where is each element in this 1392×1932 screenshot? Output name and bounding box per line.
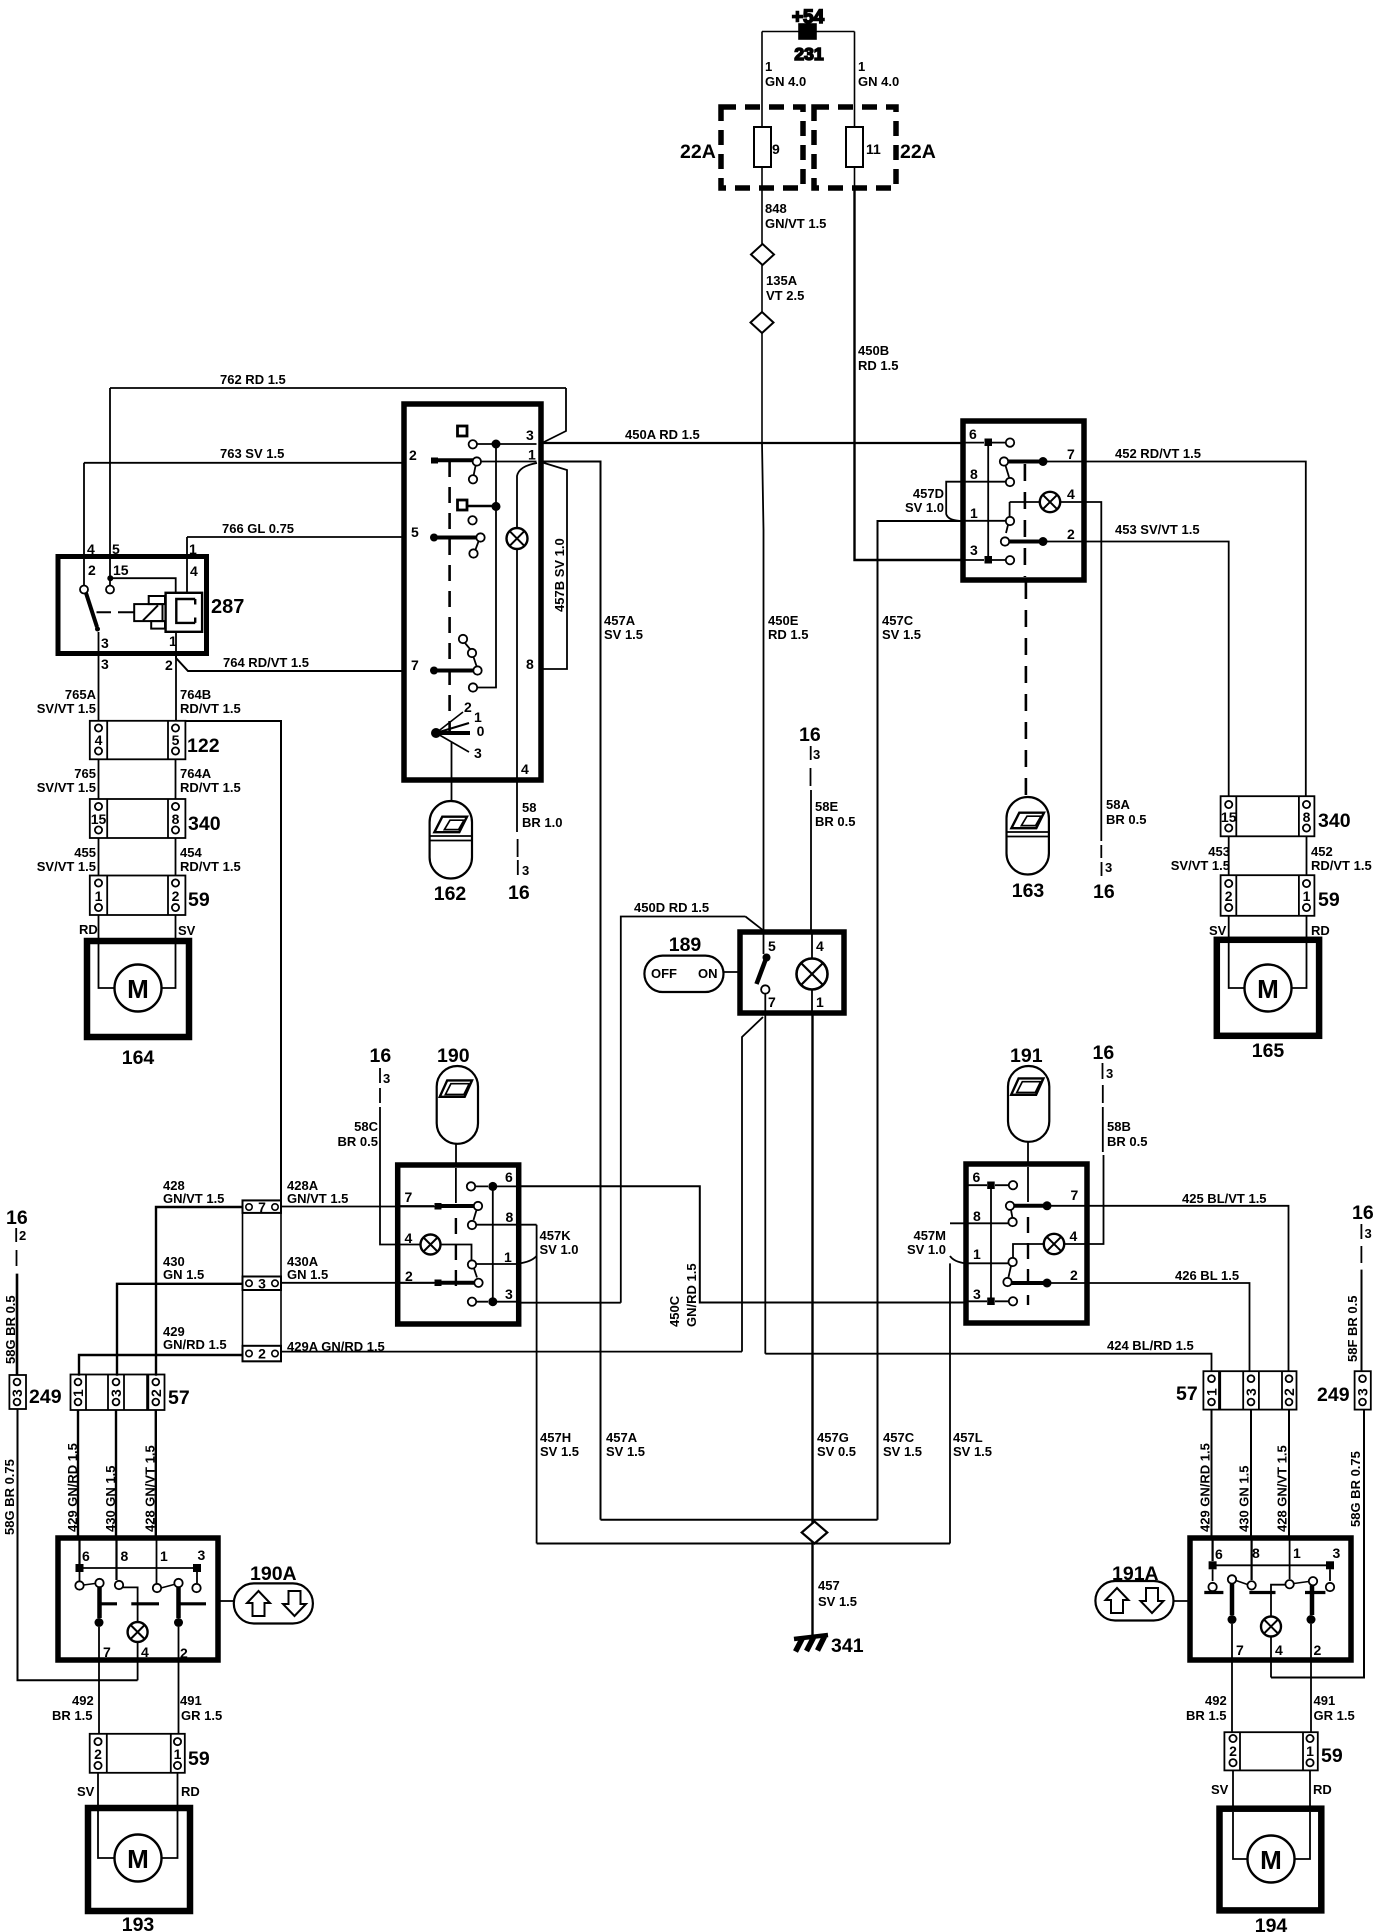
svg-text:424 BL/RD 1.5: 424 BL/RD 1.5 — [1107, 1338, 1194, 1353]
svg-text:3: 3 — [258, 1276, 266, 1292]
svg-text:426 BL 1.5: 426 BL 1.5 — [1175, 1268, 1239, 1283]
pin6 contact — [987, 1182, 995, 1190]
svg-text:430 GN 1.5: 430 GN 1.5 — [103, 1466, 118, 1533]
pin7 wire down — [98, 1627, 100, 1734]
svg-text:7: 7 — [405, 1189, 413, 1205]
arm — [1011, 1210, 1013, 1218]
svg-text:2: 2 — [409, 447, 417, 463]
wire 457 SV 1.5 — [818, 1578, 857, 1609]
pin 8 contact — [1250, 1538, 1252, 1580]
pin2 bar — [434, 458, 473, 462]
svg-text:193: 193 — [122, 1914, 155, 1932]
svg-text:3: 3 — [198, 1547, 206, 1563]
wire 764 RD/VT 1.5 — [176, 653, 406, 671]
svg-text:453 SV/VT 1.5: 453 SV/VT 1.5 — [1115, 522, 1200, 537]
pin 1 contact — [1289, 1538, 1291, 1579]
svg-text:341: 341 — [831, 1635, 864, 1657]
relay dashed link — [97, 611, 134, 613]
svg-text:4: 4 — [1275, 1642, 1283, 1658]
457B SV 1.0 bracket (pins 1-8 common) — [541, 462, 567, 669]
svg-text:BR 1.5: BR 1.5 — [52, 1708, 92, 1723]
svg-text:2: 2 — [180, 1645, 188, 1661]
svg-text:6: 6 — [1215, 1546, 1223, 1562]
connector 340 — [90, 799, 221, 838]
pin2 wire down — [178, 1627, 180, 1734]
wire 491 GR 1.5 (right) — [1314, 1693, 1355, 1723]
contact stop bars — [1204, 1591, 1325, 1594]
svg-text:3: 3 — [1106, 1066, 1113, 1081]
dashed drive link to 163 — [1025, 582, 1028, 797]
svg-text:491: 491 — [1314, 1693, 1336, 1708]
svg-text:165: 165 — [1252, 1040, 1285, 1062]
457K SV 1.0 bracket (pins 8-1) — [519, 1225, 537, 1264]
window drive link dashed — [455, 1168, 457, 1203]
connector 249 (right) — [1317, 1371, 1371, 1409]
svg-text:162: 162 — [434, 883, 467, 905]
svg-text:450C: 450C — [667, 1295, 682, 1327]
svg-text:1: 1 — [970, 505, 978, 521]
svg-text:4: 4 — [816, 938, 824, 954]
wire 58G BR 0.75 (right) — [1271, 1410, 1364, 1678]
svg-text:3: 3 — [101, 635, 109, 651]
right switch arm — [1294, 1582, 1309, 1584]
passenger front window switch (457D box) — [963, 421, 1084, 580]
svg-text:3: 3 — [108, 1389, 124, 1397]
wire 457L SV 1.5 — [949, 1263, 951, 1543]
svg-text:1: 1 — [189, 541, 197, 557]
left switch arm — [84, 1584, 96, 1586]
svg-text:7: 7 — [411, 657, 419, 673]
wire 450A RD 1.5 — [541, 442, 963, 444]
actuator dashed line — [448, 461, 451, 731]
svg-text:6: 6 — [82, 1548, 90, 1564]
connector 249 (left) — [9, 1375, 62, 1409]
svg-text:58E: 58E — [815, 799, 838, 814]
top bus bar pin6-pin3 — [1213, 1564, 1330, 1566]
svg-text:457M: 457M — [913, 1228, 946, 1243]
wire 457G SV 0.5 — [811, 1013, 813, 1635]
svg-text:SV/VT 1.5: SV/VT 1.5 — [37, 780, 96, 795]
svg-text:1: 1 — [858, 59, 865, 74]
relay pin15 to coil wire — [107, 575, 113, 581]
pin1 contact — [1008, 1258, 1016, 1266]
svg-text:8: 8 — [970, 466, 978, 482]
svg-text:762 RD 1.5: 762 RD 1.5 — [220, 372, 286, 387]
wire 428 GN/VT 1.5 — [156, 1207, 243, 1376]
svg-text:450B: 450B — [858, 343, 889, 358]
wire SV — [175, 915, 177, 941]
svg-text:GR 1.5: GR 1.5 — [181, 1708, 222, 1723]
svg-text:GN/RD 1.5: GN/RD 1.5 — [163, 1337, 227, 1352]
svg-text:457D: 457D — [913, 486, 944, 501]
svg-text:RD/VT 1.5: RD/VT 1.5 — [180, 780, 241, 795]
connector 57 (right) — [1176, 1371, 1297, 1409]
pin7 wire down — [1231, 1624, 1233, 1732]
svg-text:2: 2 — [1070, 1267, 1078, 1283]
svg-text:7: 7 — [258, 1199, 266, 1215]
svg-text:194: 194 — [1255, 1915, 1288, 1932]
wire 453 SV/VT 1.5 (lower) — [1228, 836, 1230, 875]
wire 454 RD/VT 1.5 — [175, 838, 177, 876]
svg-text:2: 2 — [1281, 1388, 1297, 1396]
svg-text:1: 1 — [174, 1746, 182, 1762]
svg-text:SV: SV — [77, 1784, 95, 1799]
pin6 contact — [985, 439, 993, 447]
svg-text:SV 1.5: SV 1.5 — [540, 1444, 579, 1459]
connector 59 (left rear door) — [90, 1734, 210, 1773]
wire 430 GN 1.5 — [117, 1284, 243, 1376]
svg-text:3: 3 — [526, 427, 534, 443]
svg-text:765A: 765A — [65, 687, 97, 702]
457M SV 1.0 bracket (pins 8-1) — [950, 1223, 966, 1263]
svg-text:2: 2 — [94, 1746, 102, 1762]
svg-text:763 SV 1.5: 763 SV 1.5 — [220, 446, 284, 461]
switch knob symbol 190A — [218, 1563, 313, 1624]
svg-text:7: 7 — [1071, 1187, 1079, 1203]
wire 428A GN/VT 1.5 — [281, 1206, 435, 1208]
svg-text:RD 1.5: RD 1.5 — [768, 627, 808, 642]
fuse 9 box — [680, 107, 803, 188]
wire 457C SV 1.5 (from pins 8/1) — [878, 521, 964, 1520]
svg-text:249: 249 — [29, 1386, 62, 1408]
svg-text:16: 16 — [1093, 1042, 1115, 1064]
pin3 contact — [468, 1298, 476, 1306]
svg-text:1: 1 — [1293, 1545, 1301, 1561]
wire 426 BL 1.5 — [1087, 1283, 1250, 1372]
wire 848 GN/VT 1.5 — [761, 188, 763, 244]
svg-text:2: 2 — [165, 657, 173, 673]
svg-text:SV: SV — [178, 923, 196, 938]
pin3 contact — [469, 440, 477, 448]
arm — [474, 1269, 477, 1278]
svg-text:OFF: OFF — [651, 966, 677, 981]
svg-text:59: 59 — [1318, 889, 1340, 911]
svg-text:15: 15 — [113, 562, 129, 578]
svg-text:429A GN/RD 1.5: 429A GN/RD 1.5 — [287, 1339, 385, 1354]
lamp — [797, 959, 828, 990]
svg-text:4: 4 — [141, 1644, 149, 1660]
wire RD — [1306, 916, 1308, 940]
branch to 429A — [742, 1017, 763, 1352]
svg-text:BR 0.5: BR 0.5 — [1106, 812, 1146, 827]
svg-text:249: 249 — [1317, 1384, 1350, 1406]
wire 135A VT 2.5 — [761, 265, 763, 312]
wire 764B RD/VT 1.5 — [175, 658, 177, 721]
svg-text:BR 1.5: BR 1.5 — [1186, 1708, 1226, 1723]
svg-text:GN/VT 1.5: GN/VT 1.5 — [163, 1191, 224, 1206]
svg-text:452: 452 — [1311, 844, 1333, 859]
fuse 11 box — [814, 107, 936, 188]
svg-text:ON: ON — [698, 966, 718, 981]
svg-text:SV 0.5: SV 0.5 — [817, 1444, 856, 1459]
rear right window switch 191A — [1190, 1538, 1351, 1732]
svg-text:428 GN/VT 1.5: 428 GN/VT 1.5 — [1275, 1445, 1290, 1532]
svg-text:BR 0.5: BR 0.5 — [1107, 1134, 1147, 1149]
svg-text:457: 457 — [818, 1578, 840, 1593]
svg-text:457G: 457G — [817, 1430, 849, 1445]
svg-text:1: 1 — [1204, 1388, 1220, 1396]
OFF/ON oval — [644, 956, 723, 992]
svg-text:457A: 457A — [604, 613, 636, 628]
svg-text:GN/VT 1.5: GN/VT 1.5 — [287, 1191, 348, 1206]
connector 59 (right rear door) — [1224, 1732, 1342, 1770]
svg-text:58C: 58C — [354, 1119, 378, 1134]
svg-text:4: 4 — [1070, 1228, 1078, 1244]
svg-text:SV 1.5: SV 1.5 — [883, 1444, 922, 1459]
svg-text:340: 340 — [1318, 810, 1351, 832]
svg-text:3: 3 — [1333, 1545, 1341, 1561]
svg-text:SV/VT 1.5: SV/VT 1.5 — [1171, 858, 1230, 873]
svg-text:58A: 58A — [1106, 797, 1130, 812]
svg-text:4: 4 — [87, 541, 95, 557]
svg-text:58G BR 0.75: 58G BR 0.75 — [1348, 1451, 1363, 1527]
internal 6-3 link — [492, 1186, 494, 1301]
wire 429A GN/RD 1.5 — [281, 1351, 742, 1353]
row3 contact square — [458, 500, 468, 510]
wire RD — [98, 915, 100, 941]
svg-text:2: 2 — [1314, 1642, 1322, 1658]
pin 1 contact — [156, 1538, 158, 1583]
svg-text:4: 4 — [521, 761, 529, 777]
wire 455 SV/VT 1.5 — [98, 838, 100, 876]
svg-text:122: 122 — [187, 735, 220, 757]
svg-text:57: 57 — [1176, 1383, 1198, 1405]
svg-text:450E: 450E — [768, 613, 799, 628]
svg-text:2: 2 — [19, 1228, 26, 1243]
window drive link — [451, 742, 453, 801]
svg-text:BR 0.5: BR 0.5 — [338, 1134, 378, 1149]
svg-text:22A: 22A — [900, 141, 936, 163]
window lift symbol 191 — [1008, 1045, 1049, 1164]
svg-text:164: 164 — [122, 1047, 155, 1069]
svg-text:RD: RD — [181, 1784, 200, 1799]
svg-text:M: M — [1260, 1845, 1282, 1875]
svg-text:3: 3 — [474, 745, 482, 761]
svg-text:3: 3 — [101, 656, 109, 672]
svg-text:SV/VT 1.5: SV/VT 1.5 — [37, 859, 96, 874]
lamp — [1044, 1234, 1064, 1254]
right switch arm — [161, 1585, 174, 1589]
svg-text:764 RD/VT 1.5: 764 RD/VT 1.5 — [223, 655, 309, 670]
wire 450E upper (135A continuation to 450A) — [761, 333, 763, 443]
wire SV (right) — [1232, 1770, 1234, 1808]
pin3 contact — [985, 556, 993, 564]
ground junction diamond — [802, 1522, 828, 1544]
wire 190 pin3 to 450D — [519, 1302, 621, 1304]
svg-text:SV 1.5: SV 1.5 — [953, 1444, 992, 1459]
svg-text:58G BR 0.75: 58G BR 0.75 — [2, 1459, 17, 1535]
pin2 bar — [1009, 540, 1043, 544]
wire 492 BR 1.5 (right) — [1186, 1693, 1227, 1723]
svg-text:190: 190 — [437, 1045, 470, 1067]
arm — [1006, 466, 1010, 478]
svg-text:59: 59 — [1321, 1745, 1343, 1767]
svg-text:RD: RD — [79, 922, 98, 937]
pin2 bar — [1012, 1281, 1048, 1285]
motor 165 — [1217, 940, 1319, 1062]
motor 194 — [1220, 1809, 1322, 1932]
wire 425 BL/VT 1.5 — [1087, 1206, 1289, 1372]
svg-text:764B: 764B — [180, 687, 211, 702]
lamp — [128, 1622, 148, 1642]
svg-text:SV: SV — [1211, 1782, 1229, 1797]
window lift symbol 163 — [1007, 797, 1049, 902]
svg-text:452 RD/VT 1.5: 452 RD/VT 1.5 — [1115, 446, 1201, 461]
svg-text:SV 1.5: SV 1.5 — [604, 627, 643, 642]
svg-text:0: 0 — [477, 723, 485, 739]
svg-text:2: 2 — [148, 1389, 164, 1397]
switch arm — [763, 954, 771, 962]
svg-text:58G BR 0.5: 58G BR 0.5 — [3, 1295, 18, 1364]
svg-text:7: 7 — [768, 994, 776, 1010]
svg-text:RD/VT 1.5: RD/VT 1.5 — [180, 701, 241, 716]
wire 430A GN 1.5 — [281, 1282, 435, 1284]
svg-text:8: 8 — [526, 656, 534, 672]
svg-text:M: M — [127, 1844, 149, 1874]
lamp — [421, 1235, 441, 1255]
svg-text:BR 1.0: BR 1.0 — [522, 815, 562, 830]
svg-text:GN/VT 1.5: GN/VT 1.5 — [765, 216, 826, 231]
svg-text:5: 5 — [768, 938, 776, 954]
svg-text:2: 2 — [88, 562, 96, 578]
svg-text:429 GN/RD 1.5: 429 GN/RD 1.5 — [1198, 1443, 1213, 1532]
arm — [1009, 1266, 1012, 1277]
svg-text:SV 1.0: SV 1.0 — [540, 1242, 579, 1257]
relay 287 — [58, 541, 244, 673]
pin 8 contact — [115, 1538, 117, 1580]
pin2 wire down — [1310, 1624, 1312, 1732]
svg-text:22A: 22A — [680, 141, 716, 163]
wire 765 SV/VT 1.5 — [98, 759, 100, 799]
svg-text:1: 1 — [973, 1246, 981, 1262]
pin7 bar — [400, 1205, 434, 1207]
connector 59 (front left door) — [90, 876, 210, 916]
svg-text:5: 5 — [411, 524, 419, 540]
left switch arm — [1236, 1581, 1248, 1585]
connector diamond — [751, 312, 774, 333]
svg-text:191: 191 — [1010, 1045, 1043, 1067]
svg-text:8: 8 — [506, 1209, 514, 1225]
svg-text:6: 6 — [505, 1169, 513, 1185]
svg-text:RD: RD — [1313, 1782, 1332, 1797]
svg-text:765: 765 — [74, 766, 96, 781]
lamp — [1040, 492, 1060, 512]
svg-text:1: 1 — [95, 888, 103, 904]
svg-text:8: 8 — [172, 811, 180, 827]
wire 58G BR 0.75 — [18, 1409, 138, 1680]
wire label 457A (lower) — [606, 1430, 645, 1459]
svg-text:455: 455 — [74, 845, 96, 860]
right rear door window switch 191 (box) — [966, 1164, 1087, 1323]
wire 763 SV 1.5 — [84, 463, 406, 585]
wire 452 RD/VT 1.5 (lower) — [1306, 836, 1308, 875]
wire label 1 GN 4.0 (right) — [858, 59, 899, 89]
connector 57 (left) — [70, 1375, 190, 1411]
svg-text:57: 57 — [168, 1387, 190, 1409]
wire 453 SV/VT 1.5 — [1084, 542, 1229, 797]
svg-text:GN/RD 1.5: GN/RD 1.5 — [684, 1263, 699, 1327]
pin1 contact — [1006, 517, 1014, 525]
svg-text:SV 1.5: SV 1.5 — [818, 1594, 857, 1609]
svg-text:M: M — [1257, 974, 1279, 1004]
wire 764A RD/VT 1.5 — [175, 759, 177, 799]
park contact square — [458, 426, 468, 436]
wire 450C GN/RD 1.5 (left rear to right rear feed) — [519, 1186, 966, 1302]
svg-text:457K: 457K — [540, 1228, 572, 1243]
pin5 bar — [468, 516, 476, 524]
wire from 122 pin5 to door strip — [185, 721, 281, 1200]
svg-text:457C: 457C — [883, 1430, 915, 1445]
wire 457H SV 1.5 — [536, 1225, 538, 1544]
svg-text:16: 16 — [508, 882, 530, 904]
svg-text:454: 454 — [180, 845, 202, 860]
svg-text:SV 1.5: SV 1.5 — [882, 627, 921, 642]
svg-text:2: 2 — [405, 1268, 413, 1284]
svg-text:6: 6 — [969, 426, 977, 442]
top bus bar pin6-pin3 — [80, 1567, 198, 1569]
svg-text:428 GN/VT 1.5: 428 GN/VT 1.5 — [143, 1445, 158, 1532]
svg-text:450D RD 1.5: 450D RD 1.5 — [634, 900, 709, 915]
svg-text:GN 1.5: GN 1.5 — [163, 1267, 204, 1282]
svg-text:3: 3 — [9, 1389, 25, 1397]
wire from 189 pin7 (424 feed) — [764, 994, 766, 1354]
svg-text:59: 59 — [188, 889, 210, 911]
svg-text:450A RD 1.5: 450A RD 1.5 — [625, 427, 700, 442]
wire 58 BR 1.0 — [522, 800, 562, 830]
svg-text:425 BL/VT 1.5: 425 BL/VT 1.5 — [1182, 1191, 1267, 1206]
svg-text:1: 1 — [528, 447, 536, 463]
svg-text:457C: 457C — [882, 613, 914, 628]
svg-text:3: 3 — [522, 863, 529, 878]
wire 429 GN/RD 1.5 — [79, 1355, 243, 1376]
svg-text:3: 3 — [973, 1286, 981, 1302]
svg-text:8: 8 — [1303, 809, 1311, 825]
wire label 457C (lower) — [883, 1430, 922, 1459]
connector 340 (right) — [1221, 796, 1351, 836]
internal 6-3 link — [990, 1189, 992, 1298]
svg-text:4: 4 — [1067, 486, 1075, 502]
svg-text:4: 4 — [190, 563, 198, 579]
svg-text:3: 3 — [505, 1286, 513, 1302]
window lift symbol 190 — [437, 1045, 478, 1165]
wire bus from +54 — [762, 32, 855, 108]
pin6 contact — [467, 1182, 475, 1190]
svg-text:GN 1.5: GN 1.5 — [287, 1267, 328, 1282]
svg-text:3: 3 — [1105, 860, 1112, 875]
svg-text:RD/VT 1.5: RD/VT 1.5 — [180, 859, 241, 874]
connector 122 — [90, 721, 220, 760]
svg-text:190A: 190A — [250, 1563, 297, 1585]
svg-text:58B: 58B — [1107, 1119, 1131, 1134]
wire 450D RD 1.5 — [621, 917, 764, 1303]
wire 58B BR 0.5 — [1087, 1107, 1104, 1244]
svg-text:SV 1.5: SV 1.5 — [606, 1444, 645, 1459]
svg-text:8: 8 — [973, 1208, 981, 1224]
svg-text:SV 1.0: SV 1.0 — [907, 1242, 946, 1257]
svg-text:16: 16 — [799, 724, 821, 746]
svg-text:16: 16 — [1352, 1202, 1374, 1224]
relay coil — [134, 604, 162, 621]
svg-text:1: 1 — [160, 1548, 168, 1564]
relay switch arm — [86, 593, 97, 627]
window drive link dashed — [1027, 1167, 1029, 1202]
wire label 1 GN 4.0 (left) — [765, 59, 806, 89]
wire 58G BR 0.5 — [16, 1274, 19, 1375]
svg-text:3: 3 — [1365, 1226, 1372, 1241]
svg-text:4: 4 — [95, 732, 103, 748]
wire 58F BR 0.5 — [1361, 1270, 1363, 1372]
position selector — [431, 728, 441, 738]
